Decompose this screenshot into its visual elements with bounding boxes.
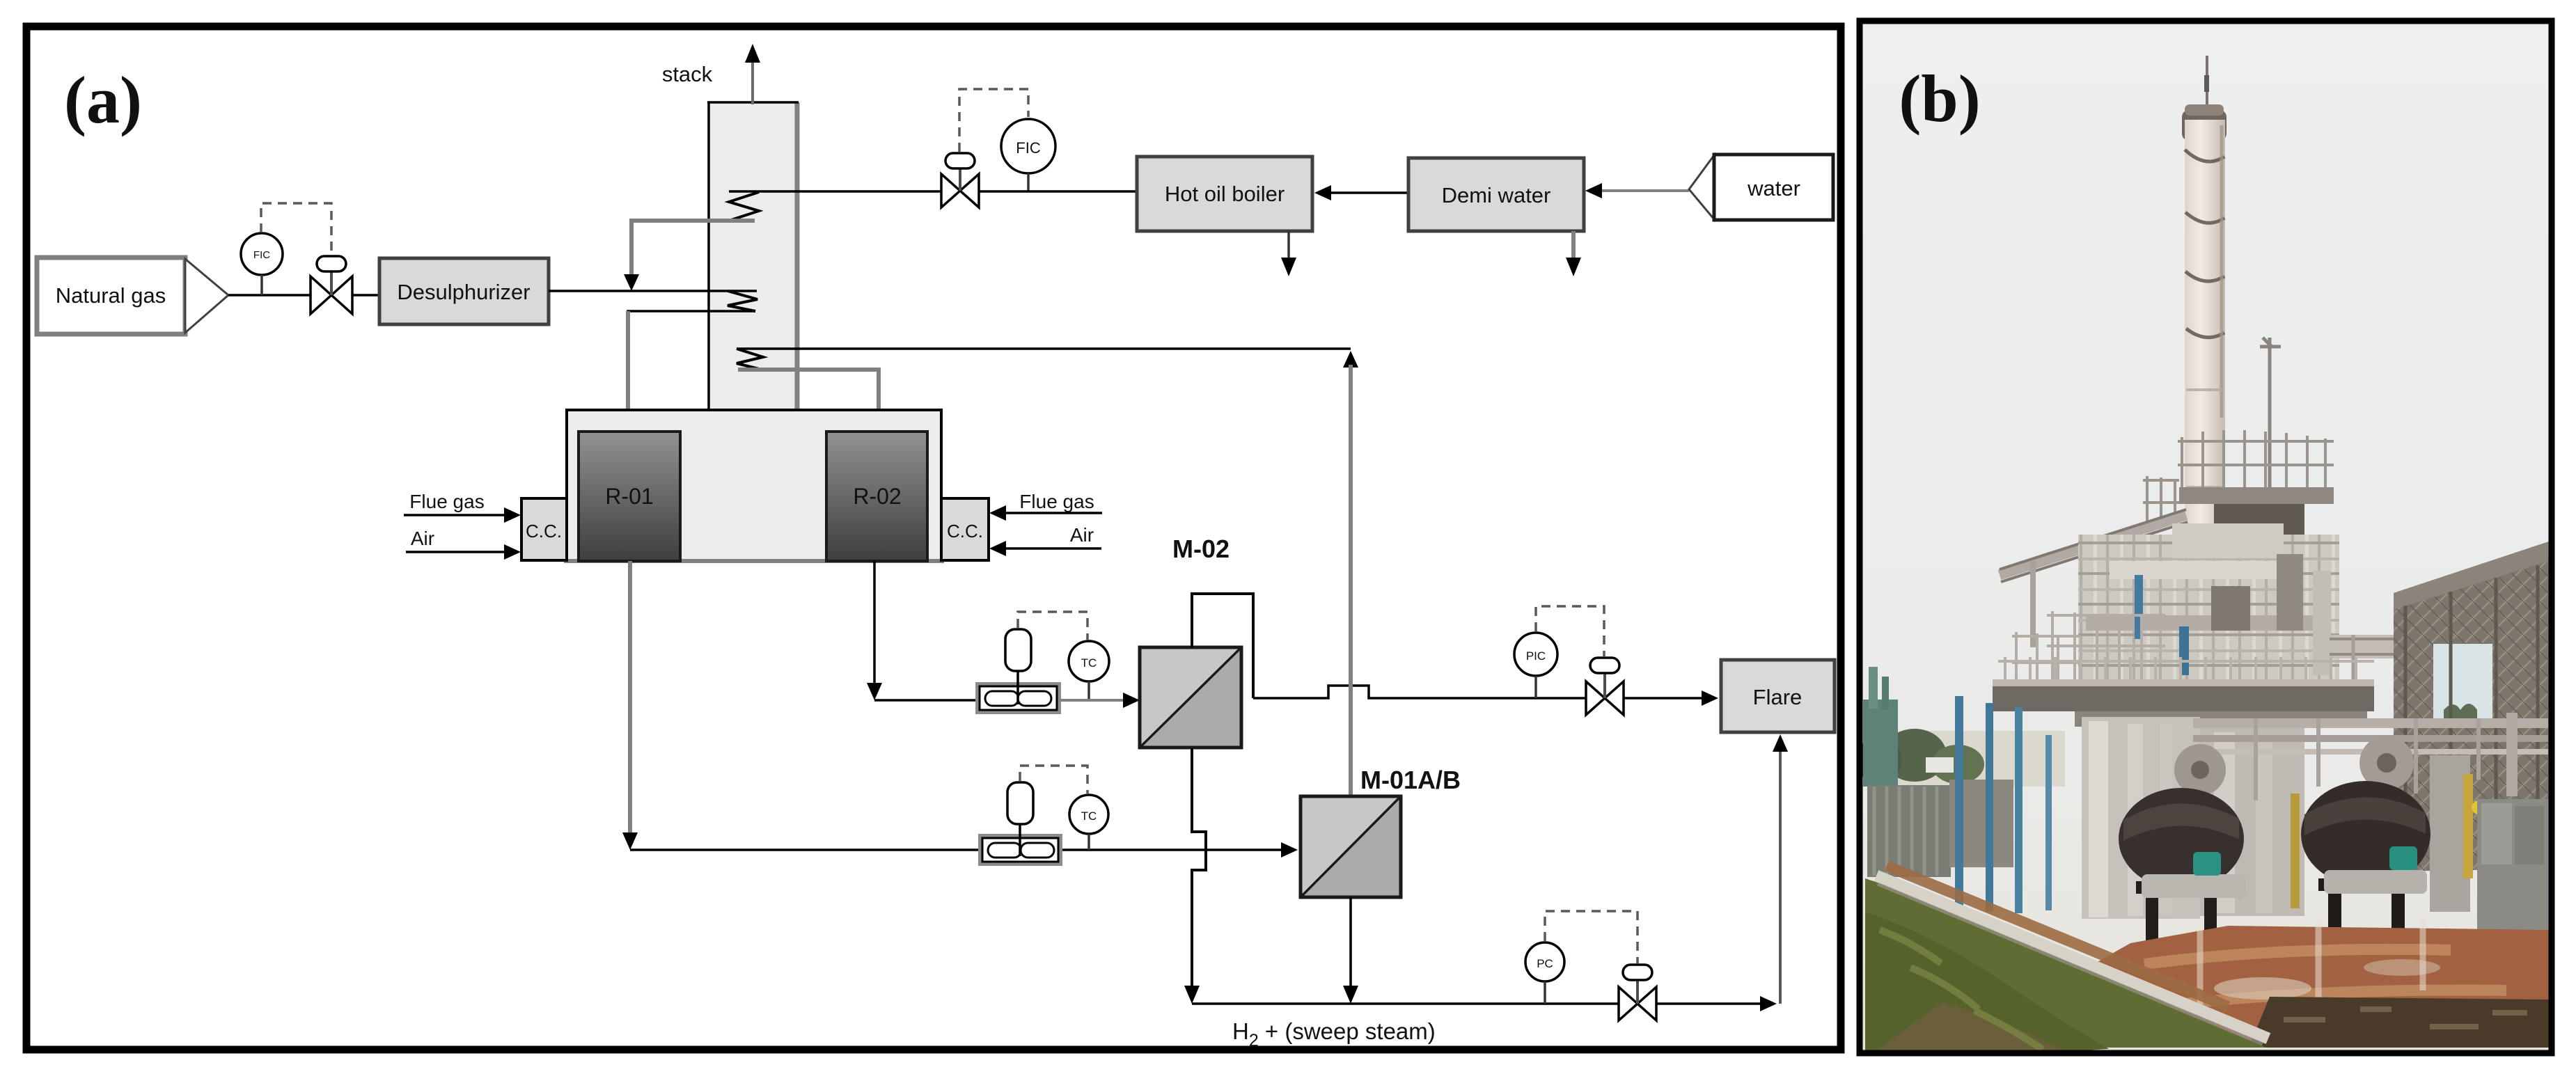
main structure block — [2078, 535, 2339, 684]
stack vent wire — [751, 63, 754, 104]
right gray cabinets — [2477, 799, 2549, 938]
svg-text:Flare: Flare — [1753, 685, 1803, 709]
right pipe rack to fence — [2330, 635, 2549, 658]
flare header wire — [1253, 686, 1514, 698]
product header wire H2 — [1192, 1002, 1620, 1005]
svg-text:(a): (a) — [64, 63, 142, 137]
arrow drain boiler — [1281, 258, 1296, 276]
small left platform — [2143, 476, 2179, 526]
arrow drain demi — [1566, 258, 1581, 276]
signal line FIC to valve V1 — [261, 203, 331, 255]
membrane M-02 — [1140, 647, 1241, 748]
svg-text:Air: Air — [411, 528, 434, 549]
coil 3 (sweep steam heater in stack) — [737, 349, 763, 370]
arrow into R-02 — [871, 413, 886, 430]
background trees left — [1863, 731, 2065, 787]
pipe M-02 bottom with jog — [1192, 748, 1206, 986]
signal line PIC to valve V3 — [1536, 606, 1604, 656]
coil 1 (hot oil heater in stack) — [729, 192, 759, 221]
arrow into M-01A/B — [1281, 842, 1298, 858]
svg-text:Air: Air — [1070, 524, 1094, 546]
arrow flue gas left — [504, 507, 521, 523]
arrow onto gas line — [624, 274, 639, 291]
svg-text:PC: PC — [1537, 957, 1553, 970]
instrument TC (mixer 1) — [1069, 641, 1109, 700]
wire coil1 to hot oil valve — [729, 190, 941, 193]
svg-text:R-01: R-01 — [605, 484, 653, 509]
drain wire demi water — [1571, 231, 1576, 259]
grass mound — [1865, 878, 2266, 1048]
signal line PC to valve V4 — [1545, 911, 1638, 963]
left scaffolding/railings — [2012, 611, 2165, 707]
wire desulphurizer to stack coil 2 — [549, 290, 757, 292]
panel (a) frame — [26, 26, 1841, 1050]
svg-text:(b): (b) — [1899, 61, 1980, 136]
flare box — [1721, 660, 1835, 732]
wire air left — [406, 551, 505, 553]
instrument TC (mixer 2) — [1069, 795, 1108, 850]
deck railing — [1998, 657, 2374, 706]
svg-text:M-01A/B: M-01A/B — [1360, 766, 1461, 794]
signal line mixer1 capsule to TC — [1018, 612, 1087, 640]
wire R-01 outlet down — [628, 561, 632, 832]
wire coil1 return to gas line (gray) — [631, 221, 755, 277]
svg-text:C.C.: C.C. — [947, 521, 983, 542]
terracotta ground — [2047, 926, 2549, 1048]
desulphurizer box — [379, 258, 549, 324]
svg-text:R-02: R-02 — [853, 484, 901, 509]
svg-text:Demi water: Demi water — [1442, 183, 1551, 207]
wire flue gas left — [404, 514, 505, 516]
arrow M-01A/B down — [1343, 986, 1358, 1004]
arrow flue gas right — [989, 505, 1006, 521]
retentate wire R-01 to M-01A/B — [630, 848, 1282, 851]
arrow up at riser top — [1343, 351, 1358, 368]
mixer 2 — [980, 782, 1060, 864]
instrument FIC (natural gas) — [241, 233, 283, 295]
arrow into demi water — [1585, 183, 1602, 198]
wire demi water to boiler — [1330, 191, 1408, 194]
arrow stack vent — [745, 44, 760, 63]
teal pumps — [2193, 852, 2221, 876]
arrow into boiler — [1314, 185, 1331, 200]
wire valve V1 to desulphurizer — [352, 294, 379, 297]
sky — [1862, 24, 2549, 1050]
wire R-02 to mixer 1 — [874, 699, 977, 702]
mesh fence right — [2394, 542, 2549, 871]
svg-text:Natural gas: Natural gas — [56, 283, 166, 308]
membrane M-01A/B — [1301, 796, 1401, 897]
mixer 1 — [977, 629, 1059, 712]
arrow air right — [989, 541, 1006, 556]
svg-text:FIC: FIC — [253, 249, 270, 261]
natural gas feed box — [37, 258, 228, 334]
dirt strip above curb — [1887, 866, 2228, 1006]
wire water to demi water — [1601, 189, 1689, 192]
arrow R-01 outlet — [622, 832, 638, 850]
arrow up into flare — [1773, 734, 1788, 752]
cable tray diagonal — [2000, 515, 2186, 575]
arrow into flare — [1702, 690, 1718, 706]
chimney antenna — [2206, 56, 2208, 115]
svg-text:water: water — [1747, 176, 1800, 200]
hot oil boiler box — [1137, 157, 1312, 231]
instrument PC (product) — [1525, 942, 1564, 1004]
svg-text:Flue gas: Flue gas — [409, 491, 484, 512]
svg-text:TC: TC — [1081, 810, 1097, 823]
svg-text:Hot oil boiler: Hot oil boiler — [1165, 182, 1285, 206]
combustion chamber C.C. right — [941, 498, 989, 560]
arrow into flare riser — [1760, 996, 1777, 1011]
drain wire hot oil boiler — [1287, 231, 1290, 259]
combustion chamber C.C. left — [521, 498, 567, 560]
arrow into M-02 — [1123, 693, 1140, 708]
white vessel zone under deck — [2082, 717, 2200, 919]
stack column — [707, 102, 799, 411]
valve V4 (product line) — [1619, 965, 1656, 1020]
dark gravel bottom — [2249, 997, 2549, 1048]
flare riser wire — [1779, 750, 1782, 1004]
svg-text:Flue gas: Flue gas — [1019, 491, 1094, 512]
riser wire to M-01A/B — [1349, 365, 1353, 796]
wire flue gas right — [1005, 512, 1102, 514]
svg-text:C.C.: C.C. — [526, 521, 562, 542]
svg-text:FIC: FIC — [1016, 139, 1041, 157]
drum 1 (left) — [2119, 788, 2244, 890]
arrow into R-01 — [620, 413, 636, 430]
drum 2 stand — [2318, 878, 2414, 949]
signal line mixer2 capsule to TC — [1020, 766, 1087, 793]
wire natural gas to valve V1 — [228, 294, 311, 297]
valve V1 — [311, 256, 352, 314]
spiral strakes — [2185, 150, 2224, 338]
wire valve V2 to hot oil boiler — [979, 190, 1137, 193]
valve V3 (flare) — [1586, 658, 1624, 715]
valve V2 (hot oil line) — [941, 153, 979, 207]
arrow air left — [504, 544, 521, 560]
drum 1 stand — [2136, 881, 2226, 951]
gray disc left drum — [2174, 744, 2226, 796]
drum 2 (right) — [2301, 781, 2430, 887]
reformer housing — [567, 410, 941, 560]
arrow R-02 outlet — [867, 683, 882, 700]
instrument FIC (hot oil) — [1001, 119, 1055, 191]
photo frame — [1860, 21, 2552, 1053]
gray wire coil3 to reformer R-02 — [738, 370, 879, 412]
demi water box — [1408, 158, 1584, 231]
long wire coil3 to M-01A/B riser — [737, 347, 1351, 350]
silver skids — [2142, 874, 2246, 898]
arrow M-02 permeate down — [1184, 986, 1200, 1004]
svg-text:stack: stack — [662, 62, 713, 86]
side mast — [2260, 338, 2281, 487]
svg-text:M-02: M-02 — [1172, 535, 1230, 563]
pipe rack above drums — [2193, 713, 2548, 800]
gray disc right drum — [2359, 736, 2414, 790]
wire R-02 outlet down — [873, 561, 876, 684]
svg-text:Desulphurizer: Desulphurizer — [397, 280, 530, 304]
coil 2 (feed preheater in stack) — [728, 291, 757, 311]
signal line to valve V2 — [959, 89, 1028, 152]
yellow pipes — [2291, 793, 2300, 908]
blue pipes — [1955, 696, 1963, 908]
reformer R-01 — [579, 432, 680, 561]
upper platform around chimney — [2179, 487, 2334, 504]
reformer R-02 — [826, 432, 927, 561]
teal equipment left — [1863, 700, 1898, 787]
curb along grass — [1876, 876, 2268, 1039]
svg-text:TC: TC — [1081, 656, 1097, 670]
svg-text:PIC: PIC — [1526, 649, 1546, 663]
pipe M-02 top loop — [1192, 594, 1253, 698]
wire mixer1 to M-02 — [1059, 699, 1125, 702]
chimney — [2185, 120, 2225, 593]
wire M-01A/B bottom — [1349, 897, 1352, 986]
chimney crown — [2182, 110, 2226, 141]
water feed box — [1689, 155, 1833, 220]
wire air right — [1005, 547, 1101, 550]
instrument PIC (flare) — [1514, 633, 1557, 698]
wire coil2 to reformer R-01 — [628, 311, 755, 412]
gray fence panels left — [1867, 785, 1951, 877]
main deck — [1993, 684, 2374, 711]
